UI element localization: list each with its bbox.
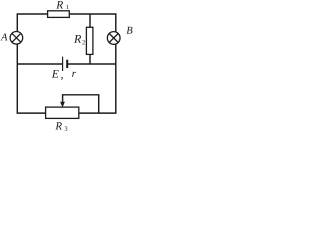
label R2	[74, 35, 81, 43]
resistor R2	[86, 27, 93, 54]
wire middle right: battery to node R	[67, 63, 116, 65]
wire left lower: lamp A to BL corner to R3	[17, 44, 45, 113]
battery E,r long plate	[62, 57, 64, 71]
resistor R1	[48, 11, 70, 18]
wire top-right: R1 to TR corner, down to lamp B	[70, 14, 116, 32]
rheostat R3 box	[46, 107, 79, 118]
wire middle left: node L to battery	[17, 63, 62, 65]
wire R2 branch lower: R2 to middle wire	[89, 54, 91, 64]
arrowhead of R3 wiper	[60, 102, 65, 108]
wire wiper loop: shaft up, across, down to bottom wire	[63, 95, 99, 113]
label E,	[52, 70, 59, 78]
label A	[0, 33, 7, 40]
wire right lower: lamp B to BR corner to R3	[79, 44, 116, 113]
label r	[72, 72, 76, 77]
battery E,r short plate	[66, 60, 68, 68]
label R3	[55, 122, 62, 129]
lamp A	[10, 32, 23, 45]
lamp B	[107, 32, 120, 45]
label R1	[56, 1, 63, 8]
wire R2 branch upper: top wire to R2	[89, 14, 91, 27]
wire top-left: node TL corner, top wire to R1	[17, 14, 47, 32]
label B	[126, 27, 132, 34]
